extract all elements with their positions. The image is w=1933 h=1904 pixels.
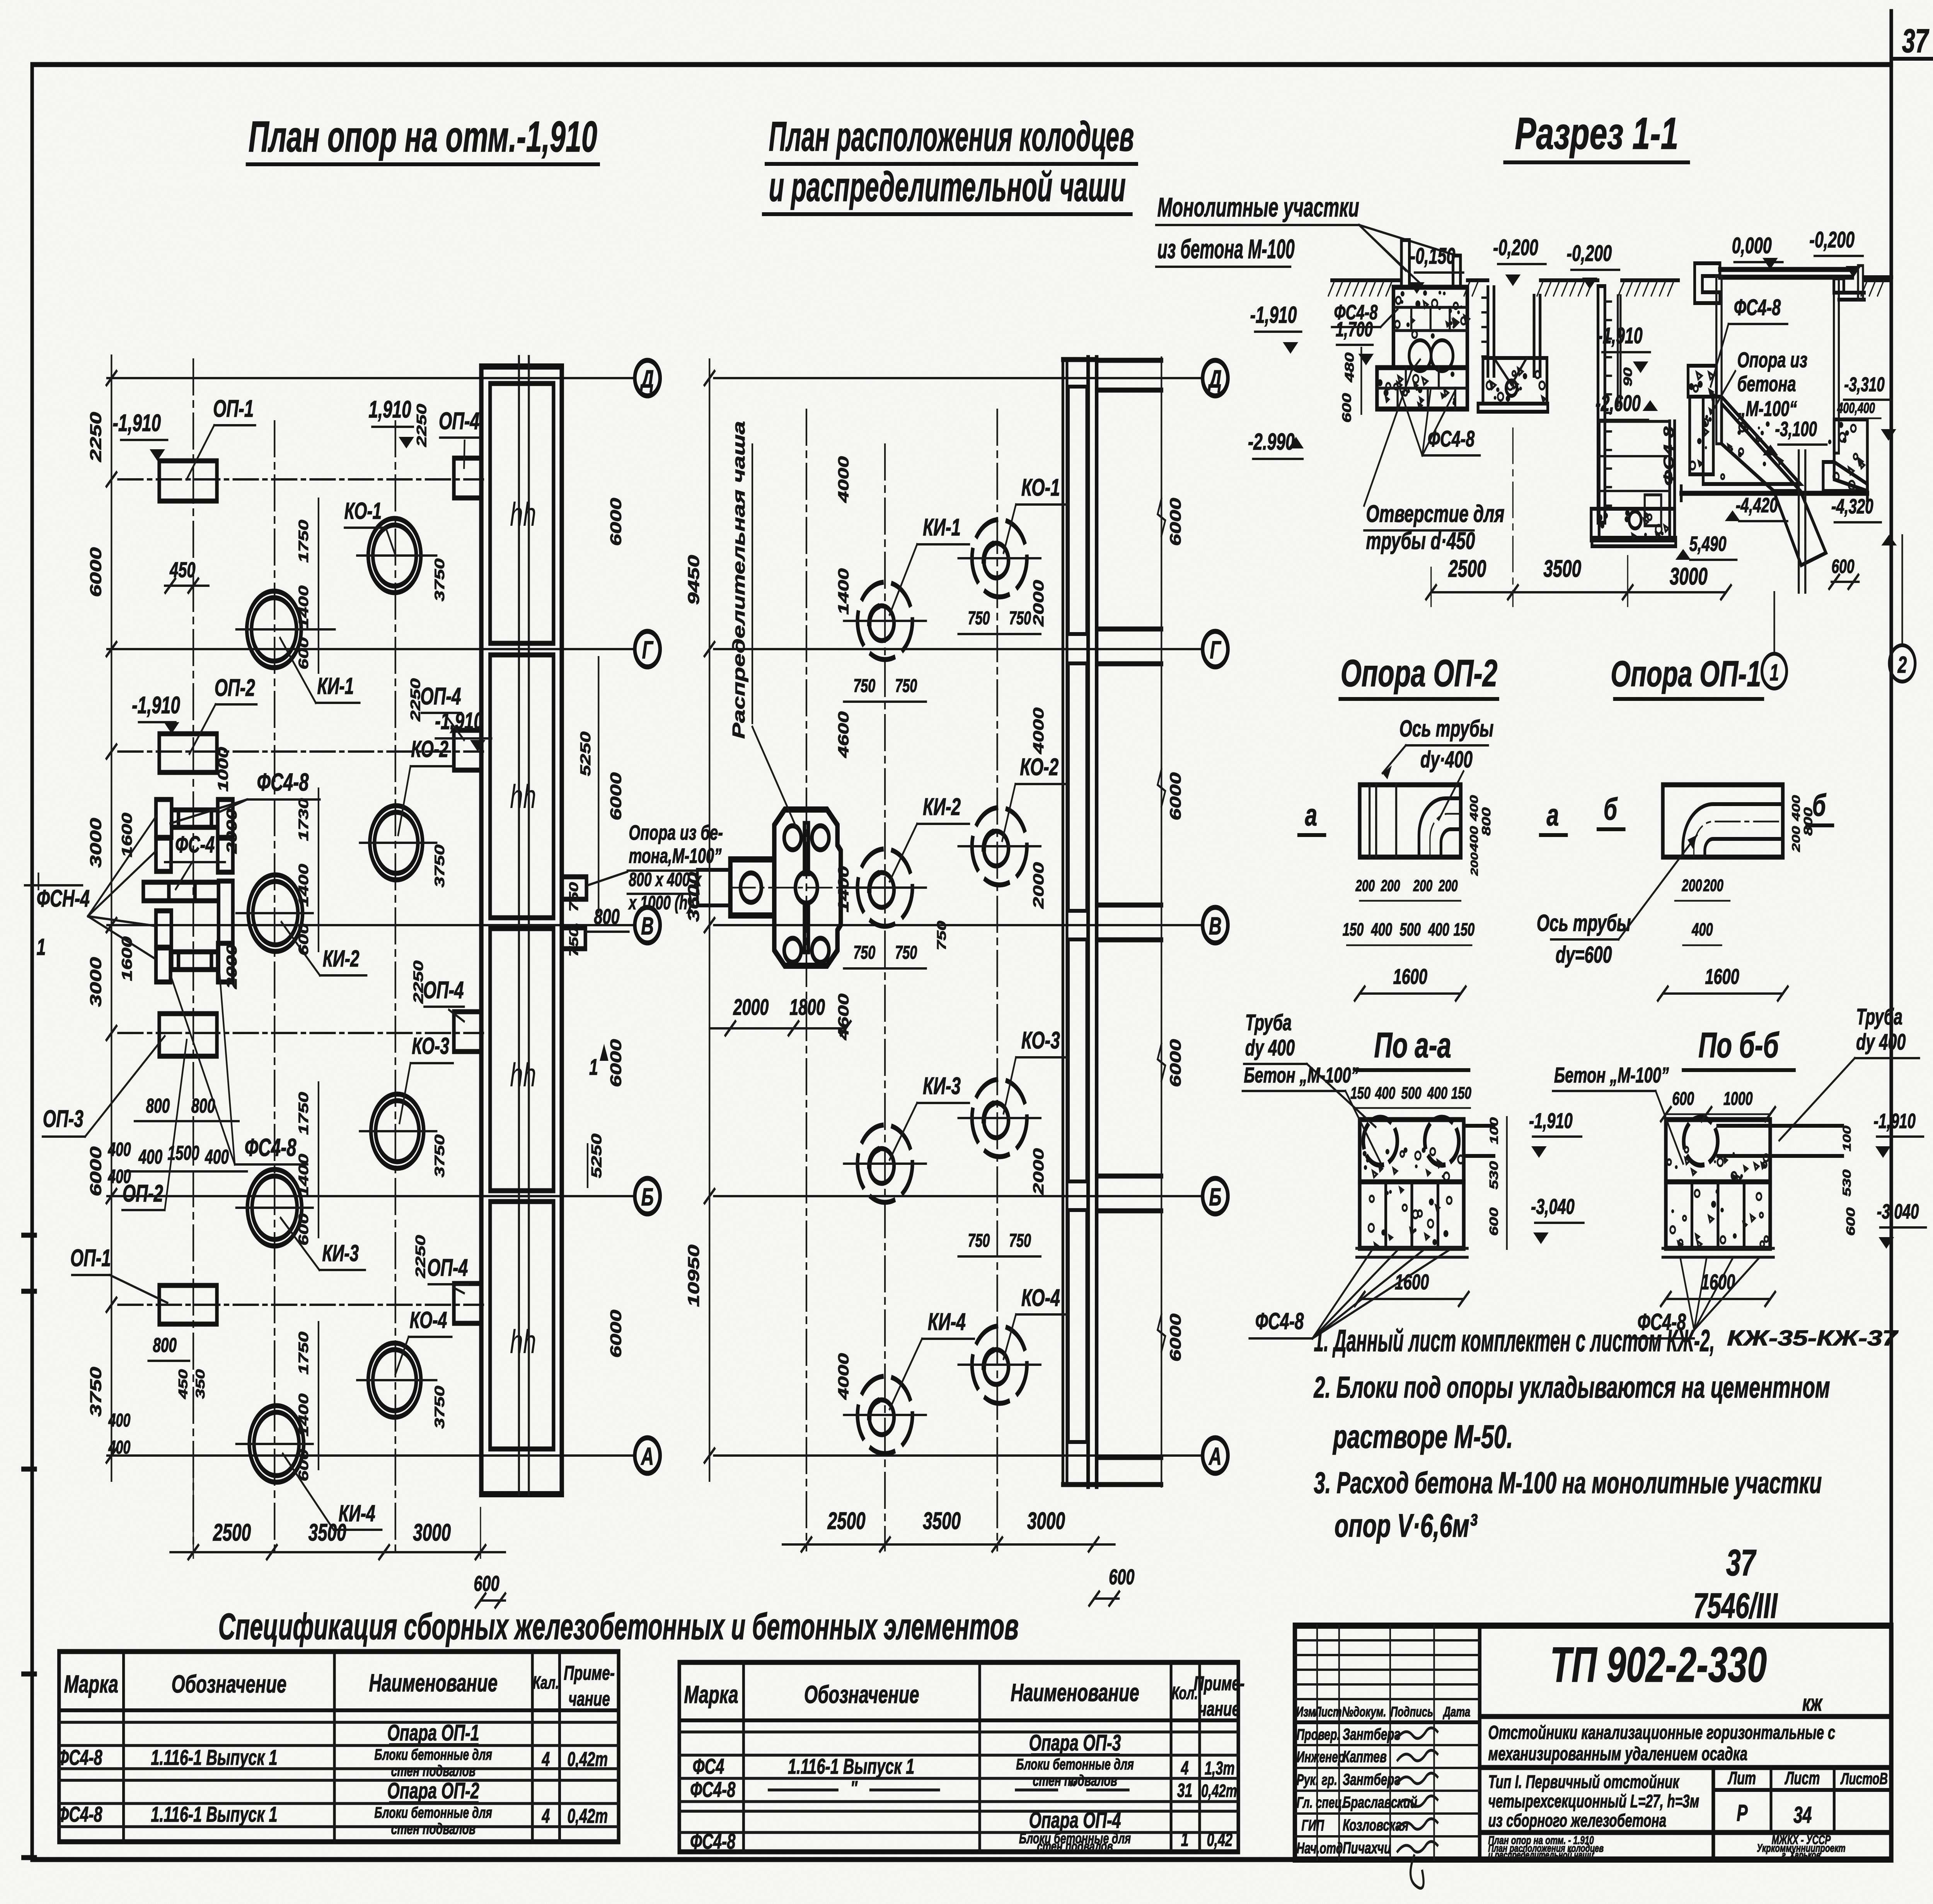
svg-text:и распределительной чаши: и распределительной чаши xyxy=(769,163,1126,210)
svg-text:ОП-1: ОП-1 xyxy=(70,1245,111,1272)
left plan well KO-4 xyxy=(357,1343,436,1417)
svg-text:ФС4-8: ФС4-8 xyxy=(245,1134,297,1161)
svg-text:ОП-1: ОП-1 xyxy=(213,395,254,422)
svg-text:6000: 6000 xyxy=(607,772,624,821)
left plan vertical axis of KI wells column xyxy=(273,421,276,1550)
left plan: hh marks inside panels xyxy=(510,496,536,1360)
left plan support OP-1 (top row) xyxy=(159,461,217,501)
svg-text:1000: 1000 xyxy=(1723,1088,1753,1109)
detail OP-1 section letters b-b xyxy=(1598,788,1833,829)
svg-text:1,700: 1,700 xyxy=(1336,318,1373,341)
svg-text:3000: 3000 xyxy=(1027,1508,1065,1534)
svg-text:100: 100 xyxy=(1841,1126,1853,1152)
svg-text:-1,910: -1,910 xyxy=(1597,323,1643,348)
svg-text:Приме-: Приме- xyxy=(564,1662,615,1684)
svg-text:400: 400 xyxy=(1691,920,1713,940)
svg-text:200: 200 xyxy=(1355,876,1375,895)
left table row: Opora OP-2 group xyxy=(57,1778,608,1838)
svg-text:750: 750 xyxy=(1009,607,1031,628)
section: column bubbles 1 and 2 xyxy=(1762,535,1915,689)
svg-text:Лит: Лит xyxy=(1727,1769,1756,1788)
middle plan rotated chain dims 4000/1400/4600 (KI column) xyxy=(835,456,852,1400)
section title Po a-a xyxy=(1357,1025,1469,1070)
title block outer frame xyxy=(1295,1626,1891,1860)
svg-text:750: 750 xyxy=(935,921,949,951)
svg-text:КО-2: КО-2 xyxy=(1020,754,1059,781)
svg-text:1. Данный лист комплектен с: 1. Данный лист комплектен с листом КЖ-2, xyxy=(1314,1323,1715,1358)
svg-text:2250: 2250 xyxy=(87,412,105,462)
svg-text:1400: 1400 xyxy=(835,568,852,615)
section: labels on OP-1 assembly xyxy=(1676,295,1897,589)
svg-text:400: 400 xyxy=(1371,920,1392,940)
middle plan grid bubbles xyxy=(1203,360,1228,1473)
svg-text:Разрез 1-1: Разрез 1-1 xyxy=(1515,109,1679,159)
svg-text:dу 400: dу 400 xyxy=(1856,1029,1906,1055)
svg-text:750: 750 xyxy=(1009,1230,1031,1251)
svg-text:hh: hh xyxy=(510,1056,536,1094)
middle plan well KO-3 (dashed) xyxy=(958,1079,1041,1157)
section: support OP-2 masonry pier xyxy=(1377,287,1469,409)
left plan support OP-2 (third row) xyxy=(159,1014,217,1056)
svg-text:750: 750 xyxy=(968,607,990,628)
svg-text:Приме-: Приме- xyxy=(1194,1672,1245,1695)
svg-text:ФС4-8: ФС4-8 xyxy=(1255,1309,1304,1335)
svg-text:Опара ОП-1: Опара ОП-1 xyxy=(387,1720,479,1745)
svg-text:стен подвалов: стен подвалов xyxy=(391,1820,476,1838)
svg-text:200: 200 xyxy=(1438,876,1458,895)
left plan left dimension labels xyxy=(87,412,105,1416)
svg-text:ОП-3: ОП-3 xyxy=(43,1106,84,1132)
svg-text:-1,910: -1,910 xyxy=(1529,1109,1573,1133)
title block signature rows xyxy=(1295,1704,1480,1857)
svg-text:200: 200 xyxy=(1682,876,1702,895)
svg-text:″: ″ xyxy=(1069,1778,1076,1799)
svg-text:600: 600 xyxy=(1844,1207,1858,1236)
labels OP-4 near wall with leaders xyxy=(420,408,479,1293)
svg-text:9450: 9450 xyxy=(685,555,703,605)
svg-text:Опара ОП-2: Опара ОП-2 xyxy=(387,1778,479,1803)
svg-text:Козловская: Козловская xyxy=(1343,1816,1408,1834)
svg-text:КО-1: КО-1 xyxy=(344,498,382,524)
svg-text:hh: hh xyxy=(510,1323,536,1360)
svg-text:450: 450 xyxy=(169,558,195,582)
svg-text:200: 200 xyxy=(1381,876,1400,895)
svg-text:1.116-1 Выпуск 1: 1.116-1 Выпуск 1 xyxy=(151,1802,277,1826)
svg-text:3750: 3750 xyxy=(432,1386,447,1428)
svg-text:4: 4 xyxy=(542,1805,550,1827)
svg-text:1.116-1 Выпуск 1: 1.116-1 Выпуск 1 xyxy=(151,1745,277,1769)
section: -0.200 level labels xyxy=(1493,227,1863,289)
svg-text:бетона: бетона xyxy=(1737,372,1796,396)
svg-text:КО-1: КО-1 xyxy=(1021,474,1060,501)
right table rows: Opora OP-3 group xyxy=(690,1730,1237,1802)
svg-text:10950: 10950 xyxy=(685,1244,703,1307)
svg-text:3500: 3500 xyxy=(1543,556,1581,582)
svg-text:КИ-4: КИ-4 xyxy=(928,1309,966,1335)
svg-text:Опора ОП-2: Опора ОП-2 xyxy=(1341,652,1498,695)
svg-text:Тип I. Первичный отстойник: Тип I. Первичный отстойник xyxy=(1488,1771,1680,1792)
svg-text:КО-3: КО-3 xyxy=(412,1033,449,1059)
left plan support OP-3 block cluster (FS blocks) xyxy=(143,799,233,982)
svg-text:3000: 3000 xyxy=(413,1519,451,1546)
svg-text:тона,М-100”: тона,М-100” xyxy=(629,844,722,868)
svg-text:Нач.отд: Нач.отд xyxy=(1297,1840,1343,1857)
middle plan vertical axis: KO column xyxy=(996,410,999,1550)
svg-text:31: 31 xyxy=(1177,1780,1192,1801)
svg-text:1730: 1730 xyxy=(296,798,311,841)
svg-text:Каптев: Каптев xyxy=(1343,1747,1387,1766)
left plan rotated dims 2250 near wall xyxy=(408,404,430,1278)
detail OP-2 section letters a-a xyxy=(1299,797,1566,835)
svg-text:1750: 1750 xyxy=(296,1331,311,1374)
svg-text:1000: 1000 xyxy=(215,747,231,792)
svg-text:6000: 6000 xyxy=(607,1310,624,1358)
svg-text:0,42т: 0,42т xyxy=(568,1805,608,1827)
svg-text:КО-2: КО-2 xyxy=(411,736,448,762)
svg-text:-2.990: -2.990 xyxy=(1248,429,1295,455)
svg-text:600: 600 xyxy=(1340,393,1354,423)
label Opora iz betona M-100 800x400x1000(h) between plans xyxy=(588,821,723,914)
svg-text:400: 400 xyxy=(138,1145,162,1168)
svg-text:чание: чание xyxy=(1198,1698,1240,1720)
middle plan basin edge line with break marks xyxy=(1157,358,1165,1486)
svg-text:кж: кж xyxy=(1802,1690,1823,1716)
svg-text:400: 400 xyxy=(108,1166,131,1187)
svg-text:dу=600: dу=600 xyxy=(1556,942,1612,968)
section OP-1: concrete masses and slope band xyxy=(1681,366,1868,592)
svg-text:Д: Д xyxy=(640,365,654,392)
left plan support OP-2 (second row) xyxy=(159,734,217,772)
svg-text:0,42т: 0,42т xyxy=(568,1748,608,1771)
svg-text:1400: 1400 xyxy=(296,1154,311,1197)
svg-text:1: 1 xyxy=(1181,1829,1189,1850)
section: levels -1.910/-2.600 and FS4-8 rotated xyxy=(1595,323,1677,486)
svg-text:ФС4-8: ФС4-8 xyxy=(57,1802,102,1826)
svg-text:3. Расход бетона М-100 на м: 3. Расход бетона М-100 на монолитные уча… xyxy=(1314,1466,1822,1500)
left plan bottom dimension chain 2500 3500 3000 xyxy=(170,1465,505,1607)
svg-text:ФСН-4: ФСН-4 xyxy=(37,885,90,912)
svg-text:400: 400 xyxy=(1468,795,1480,822)
svg-text:600: 600 xyxy=(296,1449,311,1481)
svg-text:4000: 4000 xyxy=(835,456,852,503)
title block revision grid xyxy=(1295,1626,1480,1860)
svg-text:Опора из: Опора из xyxy=(1737,348,1808,372)
left plan left dimension line with ticks xyxy=(107,356,117,1481)
svg-text:1,3т: 1,3т xyxy=(1205,1757,1235,1778)
svg-text:КО-3: КО-3 xyxy=(1021,1027,1060,1054)
middle plan left dimension line xyxy=(685,360,714,1481)
left plan grid bubbles xyxy=(635,360,660,1473)
svg-text:-4,320: -4,320 xyxy=(1831,495,1873,518)
svg-text:-0,200: -0,200 xyxy=(1809,227,1855,252)
svg-text:3750: 3750 xyxy=(87,1367,105,1416)
middle plan vertical axis: chasha column xyxy=(805,410,808,1550)
svg-text:-1,910: -1,910 xyxy=(1250,302,1297,328)
svg-text:КИ-3: КИ-3 xyxy=(923,1073,961,1099)
svg-text:Обозначение: Обозначение xyxy=(804,1681,919,1708)
svg-text:750: 750 xyxy=(968,1230,990,1251)
middle plan 750 750 dims under wells xyxy=(844,607,1041,1256)
title block: sheet content and organization xyxy=(1488,1833,1831,1861)
svg-text:Лист: Лист xyxy=(1314,1704,1342,1720)
svg-text:В: В xyxy=(641,912,654,939)
svg-text:800: 800 xyxy=(146,1094,170,1117)
svg-text:Ось трубы: Ось трубы xyxy=(1537,910,1631,936)
svg-text:5250: 5250 xyxy=(588,1134,605,1178)
svg-text:Блоки бетонные для: Блоки бетонные для xyxy=(374,1804,492,1821)
svg-text:А: А xyxy=(1208,1442,1221,1470)
svg-text:ОП-4: ОП-4 xyxy=(423,977,464,1004)
svg-text:КИ-3: КИ-3 xyxy=(322,1241,359,1266)
svg-text:-3,040: -3,040 xyxy=(1531,1195,1575,1219)
label OP-1 top with leader xyxy=(187,395,256,479)
section 1-1 ground line with soil hatch xyxy=(1328,280,1891,296)
left plan well KI-3 xyxy=(236,1169,313,1246)
left specification table xyxy=(59,1652,619,1842)
svg-text:Инженер: Инженер xyxy=(1297,1749,1345,1766)
svg-text:90: 90 xyxy=(1621,368,1635,387)
svg-text:750: 750 xyxy=(895,942,917,963)
left plan support OP-1 (bottom row) xyxy=(159,1285,217,1324)
left plan well KI-2 xyxy=(236,875,313,951)
svg-text:№докум.: №докум. xyxy=(1342,1704,1386,1720)
svg-text:-1,910: -1,910 xyxy=(1873,1110,1916,1133)
left plan rotated dims 3750 near KO column xyxy=(432,558,447,1428)
svg-text:750: 750 xyxy=(895,675,917,696)
svg-text:ОП-4: ОП-4 xyxy=(420,683,461,710)
svg-text:150: 150 xyxy=(1343,920,1364,940)
page number 37 top right xyxy=(1902,22,1930,60)
svg-text:-3,310: -3,310 xyxy=(1844,373,1885,396)
left plan: sedimentation tank wall (plan) xyxy=(481,366,562,1494)
svg-text:Г: Г xyxy=(642,636,654,663)
middle plan rotated chain dims 2000/4000 (KO column) xyxy=(1030,580,1047,1195)
middle plan well KO-2 (dashed) xyxy=(958,808,1041,885)
level labels -1,910 rows xyxy=(113,396,491,752)
svg-text:Д: Д xyxy=(1208,365,1222,392)
svg-text:Изм: Изм xyxy=(1296,1704,1316,1720)
svg-text:1600: 1600 xyxy=(119,936,135,981)
detail OP-1 plan with pipe elbow xyxy=(1663,785,1783,857)
section: support OP-1 right assembly xyxy=(1695,263,1892,453)
svg-text:2000: 2000 xyxy=(733,994,769,1020)
svg-text:Опара ОП-3: Опара ОП-3 xyxy=(1029,1730,1121,1756)
svg-text:1600: 1600 xyxy=(1393,965,1427,989)
svg-text:400,400: 400,400 xyxy=(1837,399,1875,416)
svg-text:Опора из бе-: Опора из бе- xyxy=(629,821,723,844)
detail OP-2 plan with pipe elbow xyxy=(1360,785,1461,857)
left plan: OP-4 supports on wall left face xyxy=(454,458,481,1323)
level labels -1.910 / -2.990 top right of middle plan xyxy=(1248,302,1304,459)
svg-text:четырехсекционный L=27, h=3м: четырехсекционный L=27, h=3м xyxy=(1488,1791,1699,1811)
svg-text:4000: 4000 xyxy=(835,1353,852,1400)
svg-text:600: 600 xyxy=(1831,556,1854,577)
svg-text:Марка: Марка xyxy=(684,1681,738,1708)
middle plan distribution bowl (raspredelitelnaya chasha) xyxy=(697,810,841,966)
section b-b bottom dim 1600 and FS4-8 xyxy=(1631,1258,1775,1338)
svg-text:Ось трубы: Ось трубы xyxy=(1399,716,1494,742)
middle plan tank wall (plan view) xyxy=(1063,358,1096,1486)
svg-text:400: 400 xyxy=(1427,1084,1447,1103)
svg-text:4600: 4600 xyxy=(835,711,852,758)
svg-text:растворе М-50.: растворе М-50. xyxy=(1333,1419,1513,1455)
svg-text:Монолитные участки: Монолитные участки xyxy=(1157,192,1359,222)
svg-text:530: 530 xyxy=(1487,1161,1500,1189)
svg-text:План опор на отм.-1,910: План опор на отм.-1,910 xyxy=(249,113,597,161)
svg-text:100: 100 xyxy=(1487,1117,1500,1144)
svg-text:План расположения колодцев: План расположения колодцев xyxy=(769,113,1134,160)
svg-text:600: 600 xyxy=(1672,1088,1694,1109)
svg-text:Пичахчи: Пичахчи xyxy=(1343,1839,1391,1857)
middle plan wall inner panels xyxy=(1068,387,1087,1442)
section: tall sheet-pile wall and lower well xyxy=(1591,286,1676,546)
title: Plan opor na otm -1,910 xyxy=(247,113,598,164)
svg-text:2000: 2000 xyxy=(1030,580,1047,627)
title: Plan raspolozheniya kolodcev i raspredelitelnoy chashi xyxy=(763,113,1137,214)
sheet numbers 37 and 7546/III xyxy=(1693,1542,1778,1626)
svg-text:800: 800 xyxy=(191,1094,215,1117)
svg-text:Отверстие для: Отверстие для xyxy=(1366,501,1504,527)
svg-text:2500: 2500 xyxy=(1448,556,1486,582)
svg-text:Наименование: Наименование xyxy=(1011,1679,1139,1706)
svg-text:600: 600 xyxy=(474,1572,499,1595)
svg-text:Марка: Марка xyxy=(64,1670,118,1698)
svg-text:ФС4-8: ФС4-8 xyxy=(257,768,309,796)
svg-text:1400: 1400 xyxy=(296,864,311,907)
svg-text:″: ″ xyxy=(851,1778,858,1799)
left plan: horizontal grid axes D G V B A xyxy=(107,378,634,1456)
detail OP-1 dimensions xyxy=(1658,795,1815,1001)
svg-text:2000: 2000 xyxy=(1030,862,1047,909)
section a-a drawing: concrete with two pipes and block row xyxy=(1357,1117,1494,1257)
svg-text:3750: 3750 xyxy=(432,558,447,601)
svg-text:2: 2 xyxy=(1897,652,1907,678)
svg-text:-3,100: -3,100 xyxy=(1775,418,1817,441)
svg-text:dу·400: dу·400 xyxy=(1420,747,1473,773)
middle plan well KI-2 (dashed) xyxy=(844,849,926,926)
svg-text:500: 500 xyxy=(1399,920,1420,940)
svg-text:3000: 3000 xyxy=(1670,563,1708,590)
svg-text:200: 200 xyxy=(1469,852,1480,876)
svg-text:Зантберг: Зантберг xyxy=(1343,1725,1400,1743)
section: bottom dimension chain 2500 3500 3000 xyxy=(1426,428,1731,606)
svg-text:4: 4 xyxy=(1181,1757,1189,1779)
svg-text:1750: 1750 xyxy=(296,1092,311,1135)
middle plan well KI-4 (dashed) xyxy=(844,1376,926,1454)
svg-text:-4,420: -4,420 xyxy=(1736,494,1778,517)
middle plan horizontal grid axes xyxy=(714,378,1202,1456)
svg-text:2000: 2000 xyxy=(1030,1148,1047,1195)
svg-text:1: 1 xyxy=(589,1054,598,1080)
labels KO-1..KO-4 with leaders xyxy=(344,498,453,1374)
chasha bottom dims 2000 1800 xyxy=(709,994,851,1035)
svg-text:1,910: 1,910 xyxy=(368,396,411,423)
svg-text:ФС4-8: ФС4-8 xyxy=(1660,426,1677,486)
svg-text:6000: 6000 xyxy=(87,1146,105,1196)
svg-text:3750: 3750 xyxy=(432,844,447,887)
svg-text:КИ-2: КИ-2 xyxy=(323,946,360,972)
svg-text:480: 480 xyxy=(1343,353,1357,383)
middle plan well KO-4 (dashed) xyxy=(958,1326,1041,1403)
svg-text:2500: 2500 xyxy=(213,1519,251,1546)
svg-text:450: 450 xyxy=(176,1369,190,1399)
detail OP-2 dimensions xyxy=(1343,795,1493,1001)
svg-text:Труба: Труба xyxy=(1856,1004,1902,1030)
svg-text:750: 750 xyxy=(853,942,875,963)
svg-text:а: а xyxy=(1305,797,1318,832)
svg-text:ЛистоВ: ЛистоВ xyxy=(1840,1769,1888,1788)
svg-text:200: 200 xyxy=(1703,876,1723,895)
left plan: OP-4 supports on wall right face near axis V xyxy=(562,877,629,949)
svg-text:КО-4: КО-4 xyxy=(410,1307,447,1333)
title block: type description and Lit/List cells xyxy=(1480,1768,1891,1860)
svg-text:Браславский: Браславский xyxy=(1343,1793,1417,1811)
svg-text:6000: 6000 xyxy=(87,547,105,597)
svg-text:В: В xyxy=(1209,912,1222,939)
svg-text:400: 400 xyxy=(1375,1084,1395,1103)
svg-text:6000: 6000 xyxy=(1167,772,1184,821)
middle plan 6000 labels right of basin xyxy=(1167,498,1184,1362)
left plan: crane rails (two vertical lines through wall) xyxy=(519,356,529,1494)
svg-text:400: 400 xyxy=(108,1437,131,1457)
svg-text:трубы d·450: трубы d·450 xyxy=(1366,528,1475,554)
svg-text:400: 400 xyxy=(1428,920,1449,940)
middle plan well KI-3 (dashed) xyxy=(844,1125,926,1202)
svg-text:500: 500 xyxy=(1401,1084,1421,1103)
right specification table xyxy=(679,1662,1238,1852)
svg-text:1750: 1750 xyxy=(296,520,311,563)
left plan well KO-3 xyxy=(360,1094,436,1168)
label FS4-8 upper with leader xyxy=(170,768,320,823)
binding fold marks on left edge xyxy=(23,1235,35,1858)
svg-text:опор V·6,6м³: опор V·6,6м³ xyxy=(1335,1508,1478,1544)
svg-text:800: 800 xyxy=(1480,807,1493,835)
svg-text:х 1000 (h): х 1000 (h) xyxy=(628,892,692,914)
middle plan well KO-1 (dashed) xyxy=(958,520,1041,597)
svg-text:-1,910: -1,910 xyxy=(113,410,161,436)
svg-text:37: 37 xyxy=(1726,1542,1757,1584)
label FS-4 with leader xyxy=(165,832,225,889)
svg-text:ФС4: ФС4 xyxy=(692,1754,724,1778)
svg-text:Блоки бетонные для: Блоки бетонные для xyxy=(374,1746,492,1763)
section title Po b-b xyxy=(1683,1025,1795,1070)
svg-text:-1,910: -1,910 xyxy=(132,692,180,719)
svg-text:ФС4-8: ФС4-8 xyxy=(1734,295,1781,320)
label: Monolitnye uchastki iz betona M-100 with leaders xyxy=(1156,192,1455,288)
right table rows: Opora OP-4 group xyxy=(690,1807,1232,1854)
svg-text:Обозначение: Обозначение xyxy=(171,1670,286,1698)
svg-text:Рук. гр.: Рук. гр. xyxy=(1297,1771,1337,1788)
svg-text:ФС4-8: ФС4-8 xyxy=(690,1778,735,1802)
svg-text:-0,200: -0,200 xyxy=(1567,240,1612,266)
svg-text:Распределительная чаша: Распределительная чаша xyxy=(730,421,748,739)
specification title xyxy=(218,1606,1019,1647)
svg-text:Лист: Лист xyxy=(1784,1769,1820,1788)
title block signatures squiggles xyxy=(1398,1728,1437,1888)
svg-text:По а-а: По а-а xyxy=(1374,1025,1451,1065)
svg-text:КЖ-35-КЖ-37: КЖ-35-КЖ-37 xyxy=(1727,1326,1898,1350)
svg-text:3750: 3750 xyxy=(432,1134,447,1177)
svg-text:2500: 2500 xyxy=(827,1508,866,1534)
label Os truby du=400 with leader xyxy=(1382,716,1493,820)
section: label Otverstie dlya truby d=450 xyxy=(1364,360,1504,554)
svg-text:750: 750 xyxy=(853,675,875,696)
label Os truby du=600 with leader xyxy=(1537,835,1697,968)
svg-text:Наименование: Наименование xyxy=(369,1669,498,1696)
svg-text:0,000: 0,000 xyxy=(1732,233,1772,258)
section b-b dims top 600 1000 xyxy=(1661,1088,1775,1121)
left plan vertical axis of KO wells column xyxy=(394,421,397,1550)
